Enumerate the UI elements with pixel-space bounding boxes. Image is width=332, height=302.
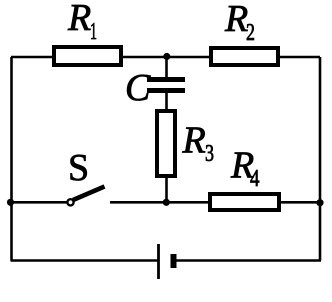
svg-text:4: 4 bbox=[250, 166, 260, 192]
node left middle bbox=[7, 199, 14, 206]
switch S pivot circle bbox=[67, 199, 73, 205]
node top junction bbox=[163, 53, 170, 60]
resistor R2 bbox=[211, 48, 278, 65]
svg-text:3: 3 bbox=[205, 141, 214, 167]
wire middle from switch to right bbox=[110, 201, 320, 204]
node R3 bottom junction bbox=[163, 199, 170, 206]
wire left bbox=[10, 57, 13, 261]
switch S blade bbox=[73, 187, 105, 201]
wire bottom-left to battery bbox=[11, 259, 159, 262]
svg-text:R: R bbox=[182, 120, 206, 162]
svg-text:R: R bbox=[224, 0, 248, 40]
wire top bbox=[11, 56, 320, 59]
capacitor C bottom plate bbox=[147, 88, 185, 93]
svg-text:C: C bbox=[125, 67, 151, 109]
resistor R1 bbox=[54, 47, 121, 65]
svg-text:1: 1 bbox=[90, 19, 97, 45]
battery long plate bbox=[157, 244, 160, 279]
wire middle-left to switch bbox=[10, 201, 68, 204]
resistor R4 bbox=[210, 194, 279, 210]
wire capacitor to middle wire bbox=[165, 91, 168, 202]
wire bottom-right from battery bbox=[176, 259, 321, 262]
resistor R3 bbox=[157, 111, 175, 176]
node right middle bbox=[316, 199, 323, 206]
svg-text:S: S bbox=[68, 147, 89, 189]
svg-text:2: 2 bbox=[246, 20, 255, 46]
wire center branch bbox=[165, 56, 168, 79]
capacitor C top plate bbox=[147, 77, 185, 82]
wire right bbox=[319, 57, 322, 261]
battery short plate bbox=[171, 254, 177, 268]
svg-text:R: R bbox=[67, 0, 91, 39]
